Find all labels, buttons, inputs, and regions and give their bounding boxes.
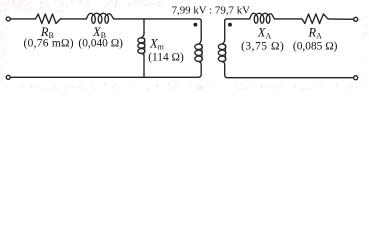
terminal: secondary top: [354, 17, 358, 21]
terminal: primary top: [6, 17, 10, 21]
inductor XA: [254, 15, 258, 23]
terminal: primary bottom: [6, 75, 10, 79]
wire: bottom rail, primary side: [10, 76, 198, 78]
inductor XB: [92, 15, 96, 23]
wire: Xm bottom lead: [143, 56, 145, 78]
svg-text:(0,76 mΩ): (0,76 mΩ): [23, 37, 73, 49]
wire: RA to terminal: [328, 18, 354, 20]
svg-text:(0,040 Ω): (0,040 Ω): [78, 37, 123, 49]
wire: bottom rail, secondary side: [228, 77, 354, 79]
wire: primary bottom lead, corner to bottom rail: [198, 65, 201, 77]
resistor RA: [302, 14, 328, 24]
polarity dot, primary: [194, 23, 198, 27]
svg-text:(3,75 Ω): (3,75 Ω): [241, 40, 284, 52]
terminal: secondary bottom: [354, 76, 358, 80]
wire: Xm top lead: [143, 19, 145, 33]
transformer primary winding: [199, 37, 202, 44]
resistor RB: [36, 14, 61, 24]
svg-text:7,99 kV : 79,7 kV: 7,99 kV : 79,7 kV: [172, 4, 251, 16]
svg-text:(0,085 Ω): (0,085 Ω): [293, 40, 338, 52]
inductor Xm: [141, 33, 144, 38]
wire: top rail, terminal to RB: [10, 18, 35, 20]
wire: RB to XB: [61, 18, 87, 20]
wire: junction to transformer primary, corner down: [144, 19, 201, 21]
wire: primary top lead: [200, 21, 202, 37]
wire: XA to RA: [275, 18, 303, 20]
wire: XB to Xm junction: [114, 18, 144, 20]
svg-text:(114 Ω): (114 Ω): [148, 52, 184, 64]
transformer secondary winding: [222, 37, 225, 44]
polarity dot, secondary: [228, 23, 232, 27]
wire: secondary top lead and corner to rail: [225, 19, 250, 38]
wire: secondary bottom lead, corner to bottom rail: [225, 65, 228, 78]
